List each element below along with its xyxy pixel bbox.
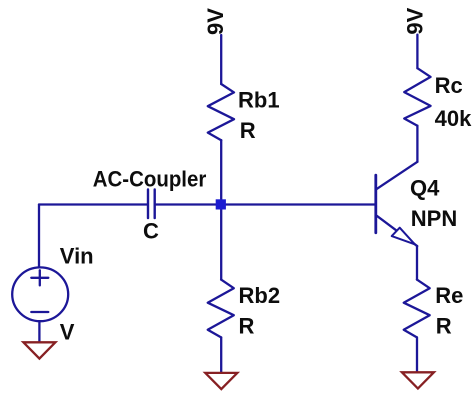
- horizontal wire Vin to capacitor: [39, 203, 147, 205]
- svg-text:R: R: [436, 314, 452, 339]
- resistor Re: [404, 280, 430, 338]
- transistor Q4 emitter arrow: [392, 228, 415, 245]
- transistor Q4 base bar: [374, 175, 377, 233]
- wire capacitor to Q4 base: [156, 203, 376, 205]
- svg-text:40k: 40k: [435, 106, 472, 131]
- transistor Q4 collector line: [376, 162, 417, 189]
- svg-text:Rc: Rc: [435, 73, 463, 98]
- resistor Rb2: [208, 280, 234, 338]
- voltage source Vin circle: [12, 267, 68, 321]
- svg-text:9V: 9V: [403, 7, 428, 34]
- svg-text:Re: Re: [435, 283, 463, 308]
- resistor Rc: [404, 68, 430, 126]
- ground under Rb2: [205, 373, 237, 389]
- node junction square at base: [216, 199, 226, 209]
- svg-text:Vin: Vin: [60, 243, 94, 268]
- svg-text:NPN: NPN: [411, 206, 457, 231]
- resistor Rb1: [208, 84, 234, 140]
- svg-text:AC-Coupler: AC-Coupler: [93, 167, 207, 192]
- svg-text:Q4: Q4: [410, 176, 440, 201]
- svg-text:R: R: [239, 314, 255, 339]
- ground under Vin: [23, 342, 55, 358]
- capacitor C plates: [148, 190, 155, 219]
- wire Re to ground: [416, 337, 418, 372]
- Vin plus sign: [31, 277, 48, 279]
- wire Rc to Q4 collector: [416, 126, 418, 162]
- wire left 9V rail to Rb1: [220, 35, 222, 84]
- ground under Re: [402, 372, 434, 388]
- wire Rb2 to ground: [220, 337, 222, 373]
- wire Q4 emitter to Re: [416, 246, 418, 280]
- svg-text:R: R: [240, 118, 256, 143]
- svg-text:Rb1: Rb1: [238, 87, 280, 112]
- Vin minus sign: [31, 311, 48, 313]
- wire right 9V rail to Rc: [416, 35, 418, 69]
- svg-text:C: C: [143, 218, 159, 243]
- wire Vin top lead: [38, 205, 40, 268]
- svg-text:V: V: [60, 319, 75, 344]
- svg-text:9V: 9V: [203, 8, 228, 35]
- wire Rb1 to junction to Rb2: [220, 140, 222, 279]
- transistor Q4 emitter line: [377, 216, 417, 246]
- svg-text:Rb2: Rb2: [239, 283, 281, 308]
- wire Vin bottom lead: [38, 322, 40, 343]
